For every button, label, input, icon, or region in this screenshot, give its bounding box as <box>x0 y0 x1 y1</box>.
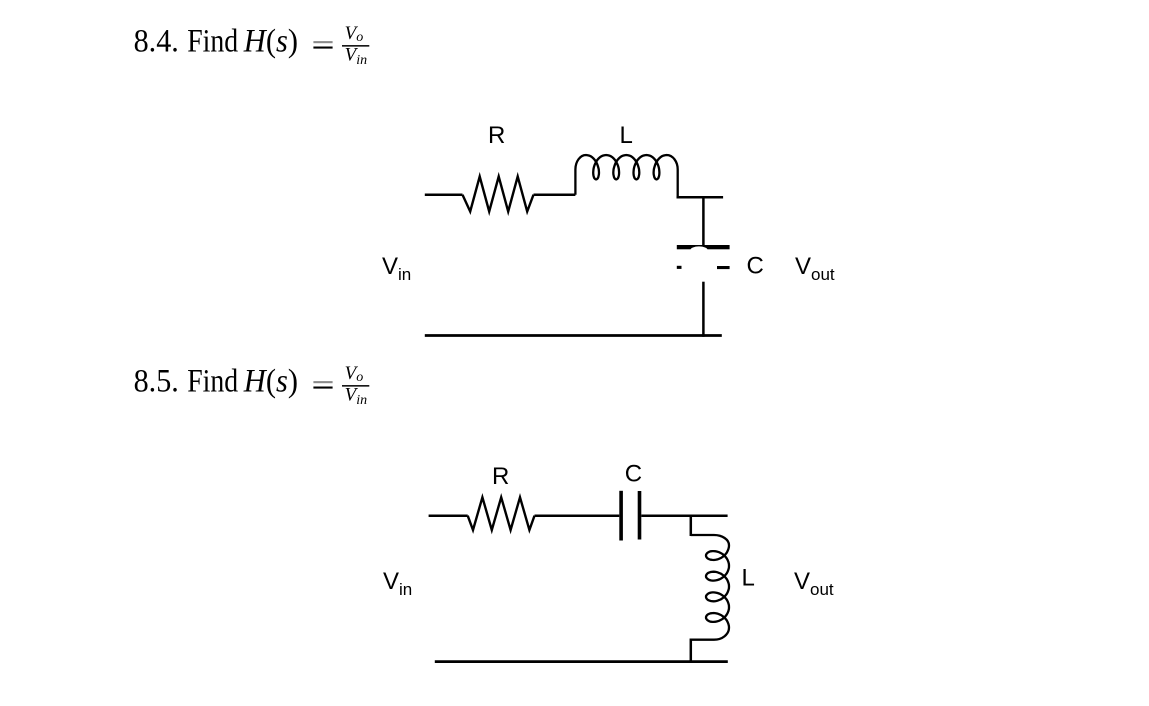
wire: resistor to inductor (8.4) <box>534 193 576 196</box>
wire: inductor bottom lead (8.5) <box>690 639 693 663</box>
capacitor C top lead (8.4) <box>702 197 705 245</box>
svg-text:Vin: Vin <box>345 45 368 68</box>
wire: node stub at top right (8.4) <box>677 196 724 199</box>
svg-text:C: C <box>747 253 764 280</box>
svg-text:Vin: Vin <box>382 253 411 284</box>
svg-text:R: R <box>488 122 505 149</box>
svg-text:C: C <box>625 461 642 488</box>
svg-text:H(s): H(s) <box>243 24 298 60</box>
svg-text:Vo: Vo <box>345 23 364 45</box>
inductor L (8.5) <box>691 535 729 640</box>
capacitor C bottom lead (8.4) <box>702 282 705 337</box>
svg-text:Find: Find <box>187 24 238 60</box>
wire: node drop to inductor (8.5) <box>690 516 693 536</box>
svg-text:Vout: Vout <box>794 568 834 599</box>
fraction Vo/Vin (8.5) <box>342 363 369 408</box>
svg-text:Vo: Vo <box>345 363 364 385</box>
wire: resistor to capacitor (8.5) <box>535 514 620 517</box>
wire: input top lead (8.5) <box>429 514 468 517</box>
capacitor C (8.4) <box>677 245 730 269</box>
resistor R (8.5) <box>468 497 535 530</box>
capacitor C (8.5) <box>619 491 641 541</box>
wire: bottom return (8.5) <box>435 660 728 663</box>
svg-text:R: R <box>492 463 509 490</box>
svg-text:L: L <box>742 565 755 592</box>
svg-text:8.5.: 8.5. <box>134 364 179 400</box>
svg-text:8.4.: 8.4. <box>134 24 179 60</box>
fraction Vo/Vin (8.4) <box>342 23 369 68</box>
problem 8.4 title text <box>134 24 298 60</box>
svg-text:Vin: Vin <box>345 385 368 408</box>
inductor L (8.4) <box>575 155 677 197</box>
svg-text:L: L <box>620 122 633 149</box>
wire: bottom return (8.4) <box>425 334 722 337</box>
problem 8.5 title text <box>134 364 298 400</box>
equals sign (8.4) <box>313 41 332 49</box>
svg-text:H(s): H(s) <box>243 364 298 400</box>
wire: capacitor to right end (8.5) <box>641 514 727 517</box>
svg-text:Vin: Vin <box>383 568 412 599</box>
equals sign (8.5) <box>313 381 332 389</box>
wire: input top lead (8.4) <box>425 193 463 196</box>
resistor R (8.4) <box>463 177 534 212</box>
svg-text:Find: Find <box>187 364 238 400</box>
svg-text:Vout: Vout <box>795 253 835 284</box>
